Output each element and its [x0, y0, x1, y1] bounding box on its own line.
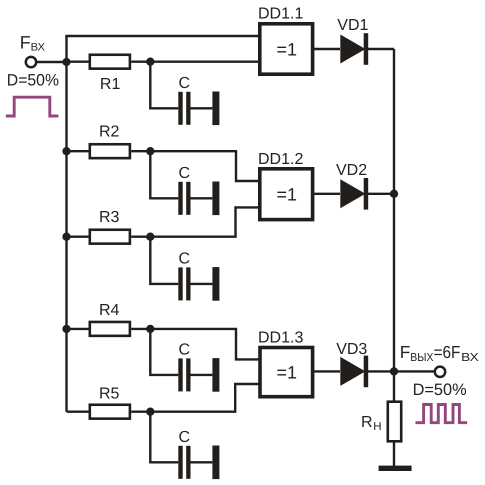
wire VD2 to right bus — [368, 193, 395, 195]
svg-text:ВХ: ВХ — [31, 41, 45, 53]
wire row3 right to DD1.2 lower input — [131, 207, 261, 236]
label C row5 — [179, 429, 191, 446]
resistor R1 — [90, 55, 130, 69]
svg-text:D=50%: D=50% — [413, 380, 467, 399]
svg-text:Н: Н — [373, 421, 381, 433]
wire DD1.1 output — [313, 48, 340, 50]
wire top to DD1.1 upper input — [65, 35, 261, 37]
wire row1 right to DD1.1 lower input — [131, 61, 261, 63]
label C row2 — [179, 165, 191, 182]
svg-text:VD3: VD3 — [336, 341, 367, 358]
label R1 — [100, 76, 121, 93]
svg-text:C: C — [179, 342, 191, 359]
node row1 — [146, 58, 154, 66]
svg-text:F: F — [400, 342, 411, 362]
node VD2 junction — [390, 190, 398, 198]
node input junction — [62, 58, 70, 66]
svg-text:R3: R3 — [99, 209, 120, 226]
wire row2 cap drop — [150, 151, 178, 198]
wire row5 left — [67, 411, 90, 413]
wire row1 cap drop — [150, 62, 178, 109]
wire row4 right to DD1.3 upper input — [131, 329, 261, 360]
wire row4 cap drop — [150, 329, 178, 375]
label R3 — [99, 209, 120, 226]
label R5 — [99, 385, 120, 402]
diode VD2 — [340, 178, 368, 210]
label DD1.1 — [258, 5, 303, 22]
node row3 — [146, 233, 154, 241]
svg-text:=1: =1 — [277, 185, 298, 205]
svg-text:DD1.2: DD1.2 — [258, 151, 303, 168]
label R4 — [99, 302, 120, 319]
svg-text:ВЫХ: ВЫХ — [410, 351, 433, 364]
svg-text:DD1.3: DD1.3 — [258, 330, 303, 347]
node row2 — [146, 147, 154, 155]
output waveform pulse train — [415, 405, 467, 423]
label VD1 — [337, 17, 368, 34]
label FVYH=6FBX — [400, 342, 479, 364]
svg-text:VD1: VD1 — [337, 17, 368, 34]
diode VD3 — [340, 356, 368, 388]
capacitor C row5 — [178, 446, 219, 480]
wire input to bus — [37, 61, 67, 63]
svg-text:R1: R1 — [100, 76, 121, 93]
wire row4 left — [67, 328, 90, 330]
resistor R3 — [90, 230, 130, 244]
wire row3 left — [67, 235, 90, 237]
capacitor C row1 — [178, 92, 219, 126]
diode VD1 — [340, 33, 368, 65]
label C row1 — [179, 75, 191, 92]
op-amp U2: XOR gate DD1.2 — [260, 169, 313, 220]
wire DD1.3 output — [313, 370, 340, 372]
op-amp U1: XOR gate DD1.1 — [260, 24, 313, 74]
label FBX — [20, 32, 45, 53]
wire row2 left — [67, 150, 90, 152]
svg-text:DD1.1: DD1.1 — [258, 5, 303, 22]
svg-text:C: C — [179, 165, 191, 182]
resistor R5 — [90, 405, 130, 419]
node row3 bus junction — [62, 233, 70, 241]
svg-text:C: C — [179, 251, 191, 268]
svg-text:F: F — [20, 32, 31, 52]
node row4 — [146, 325, 154, 333]
node row5 — [146, 408, 154, 416]
output terminal FVYH — [435, 367, 445, 377]
wire row1 left — [67, 61, 90, 63]
capacitor C row4 — [178, 358, 219, 392]
svg-text:R4: R4 — [99, 302, 120, 319]
svg-text:=6F: =6F — [434, 342, 461, 362]
label D=50% input — [7, 71, 59, 90]
label DD1.2 — [258, 151, 303, 168]
node output junction — [390, 367, 398, 375]
label DD1.3 — [258, 330, 303, 347]
node row2 bus junction — [62, 147, 70, 155]
resistor R2 — [90, 144, 130, 158]
ground — [379, 466, 412, 471]
wire row2 right to DD1.2 upper input — [131, 151, 261, 181]
wire output node to terminal — [394, 370, 435, 372]
svg-text:R5: R5 — [99, 385, 120, 402]
wire row5 right to DD1.3 lower input — [131, 384, 261, 412]
label C row4 — [179, 342, 191, 359]
svg-text:=1: =1 — [277, 40, 298, 60]
label D=50% output — [413, 380, 467, 399]
wire right bus vertical — [393, 49, 395, 402]
svg-text:D=50%: D=50% — [7, 71, 59, 90]
label RH — [361, 414, 382, 433]
label VD2 — [336, 162, 367, 179]
label C row3 — [179, 251, 191, 268]
svg-text:R: R — [361, 414, 373, 431]
capacitor C row3 — [178, 267, 219, 301]
wire RH to ground — [393, 441, 395, 466]
capacitor C row2 — [178, 182, 219, 216]
label R2 — [99, 124, 120, 141]
svg-text:ВХ: ВХ — [461, 351, 479, 364]
resistor RH load — [388, 402, 401, 442]
svg-text:=1: =1 — [277, 363, 298, 383]
wire VD3 to output node — [368, 370, 395, 372]
label VD3 — [336, 341, 367, 358]
svg-text:VD2: VD2 — [336, 162, 367, 179]
node row4 bus junction — [62, 325, 70, 333]
wire VD1 to right bus — [368, 48, 395, 50]
svg-text:R2: R2 — [99, 124, 120, 141]
wire left bus vertical — [65, 36, 67, 412]
input waveform pulse — [6, 97, 59, 116]
resistor R4 — [90, 322, 130, 336]
svg-text:C: C — [179, 429, 191, 446]
op-amp U3: XOR gate DD1.3 — [260, 348, 313, 397]
svg-text:C: C — [179, 75, 191, 92]
input terminal FBX — [26, 57, 36, 67]
wire DD1.2 output — [313, 193, 340, 195]
wire row5 cap drop — [150, 412, 178, 463]
wire row3 cap drop — [150, 237, 178, 284]
